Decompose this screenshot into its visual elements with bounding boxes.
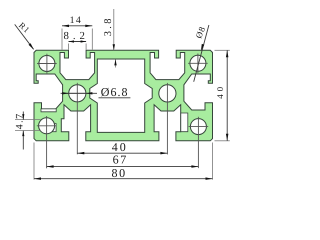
dim 4.7 extension lines [15, 120, 41, 131]
void sliver left of bottom-left slot [52, 124, 56, 132]
dim 4.7 lines and arrows [22, 112, 24, 150]
leader R1 [15, 24, 34, 49]
svg-text:67: 67 [113, 152, 128, 166]
dim 8.2 line and arrows [69, 40, 87, 42]
dim 40 bottom line and arrows [77, 152, 167, 155]
svg-text:40: 40 [215, 84, 225, 99]
profile body [34, 50, 213, 141]
svg-text:Ø6.8: Ø6.8 [101, 85, 129, 99]
leader Ø8 [194, 25, 209, 82]
corner hole top-left Ø8 [37, 54, 57, 74]
svg-text:80: 80 [111, 166, 126, 180]
dim 3.8 lines and arrows [113, 9, 117, 68]
dim 14 extension lines [62, 29, 92, 50]
corner hole bottom-right Ø8 (67 ref) [189, 117, 209, 168]
dim 40 right line and arrows [226, 50, 229, 141]
dim 80 extension lines [34, 143, 213, 180]
void sliver right of bottom-right slot [181, 113, 188, 132]
svg-text:3.8: 3.8 [103, 16, 114, 36]
leader Ø6.8 [61, 92, 131, 98]
svg-text:8.2: 8.2 [63, 30, 89, 42]
corner hole bottom-left Ø8 (67 ref) [37, 116, 57, 168]
center hole right Ø6.8 (40 ref) [159, 83, 176, 154]
center hole left Ø6.8 [67, 83, 88, 155]
svg-text:4.7: 4.7 [15, 112, 26, 129]
dim 80 line and arrows [34, 177, 213, 180]
dim 14 line and arrows [62, 25, 92, 28]
corner hole top-right Ø8 [188, 54, 208, 74]
dim 40 right extension lines [215, 50, 230, 141]
dim 67 line and arrows [47, 165, 199, 168]
svg-text:14: 14 [70, 15, 83, 26]
dim 8.2 extension lines [69, 44, 87, 50]
void sliver below left-face slot lip [41, 109, 56, 112]
svg-text:R1: R1 [17, 20, 32, 35]
